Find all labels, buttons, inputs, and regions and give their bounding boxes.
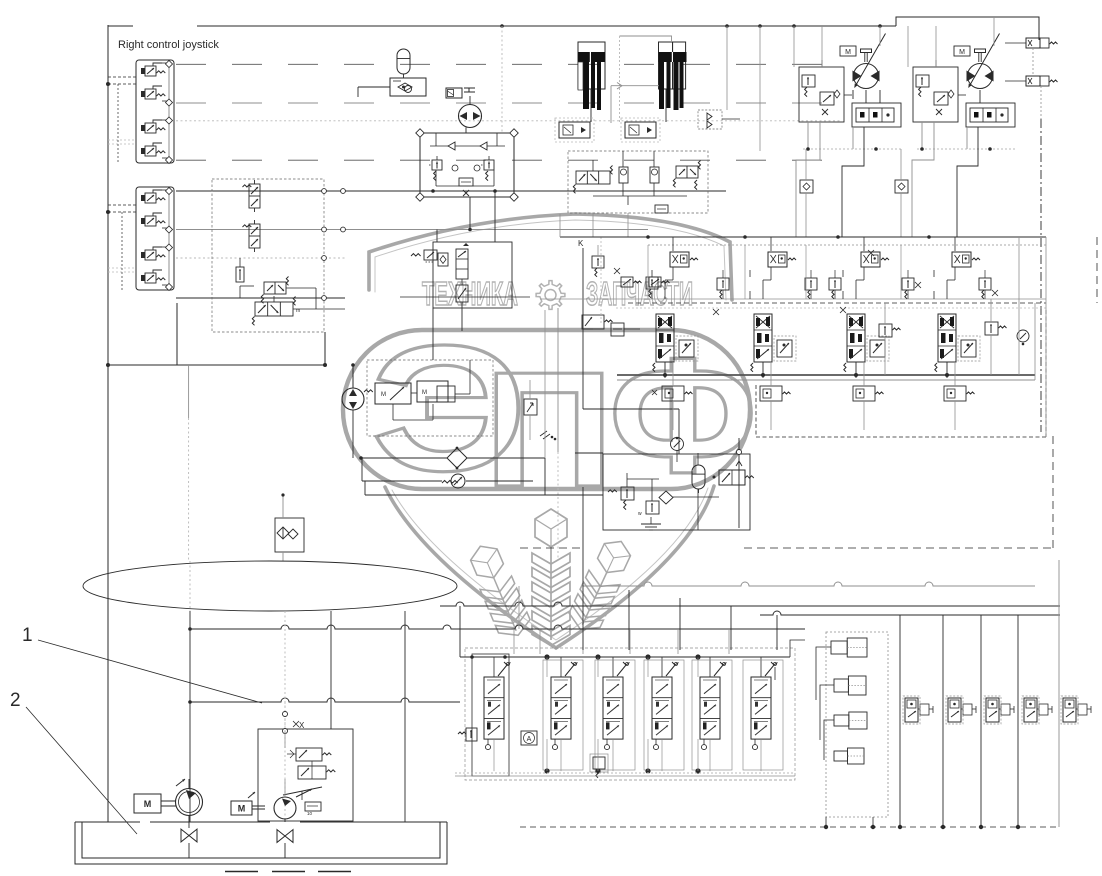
auxiliary block B5 (603, 454, 750, 530)
filter F1 housing (578, 42, 605, 89)
cross mark near col1 bottom valve (652, 390, 657, 395)
filter connector wires (620, 36, 672, 42)
reservoir ellipse (83, 561, 457, 611)
relief RV6 (621, 487, 634, 500)
top bus junction dots (500, 24, 504, 28)
relief valve (802, 75, 815, 87)
cluster internal wires (436, 230, 438, 243)
filter F3 with check (275, 518, 304, 552)
ground drain symbol (641, 523, 661, 525)
bank vertical returns (805, 245, 807, 299)
svg-text:Ф: Ф (609, 324, 757, 507)
collector wire y=495 (365, 494, 603, 496)
suction bus y629 (190, 625, 805, 629)
charge circuit frame G2 (913, 67, 958, 122)
svg-text:A: A (527, 736, 532, 743)
svg-text:w: w (638, 511, 642, 517)
solenoid unit SU3 (986, 698, 999, 722)
svg-text:M: M (144, 799, 152, 809)
supply risers from top bus (793, 26, 795, 67)
bank column at 763 bottom valve (760, 386, 782, 401)
cylinder CYL1 (831, 641, 847, 654)
bank column at 763 top valve (768, 252, 787, 267)
pilot dotted bus (917, 148, 1015, 150)
feeder horizontals (760, 611, 1060, 615)
M valve V33 (417, 381, 448, 402)
pilot spool V30 (456, 249, 468, 279)
bank column at 763 pilot valve (777, 340, 792, 357)
leader line 2 (26, 707, 137, 834)
pilot relief RV8 (592, 256, 604, 268)
shaft symbol (975, 49, 986, 53)
leader line 1 (38, 640, 262, 703)
bottom check box (655, 205, 668, 213)
accumulator A2 (692, 465, 705, 489)
svg-text:M: M (381, 392, 386, 398)
bank column at 947 risers (946, 362, 948, 378)
svg-text:2: 2 (10, 690, 21, 711)
check valves in B2 (448, 142, 455, 150)
drive motor (854, 64, 879, 89)
bank column at 947 top valve (952, 252, 971, 267)
small relief LS7 (593, 757, 605, 769)
stub wires at left rail (108, 76, 136, 78)
riser x=433 to B4 (432, 308, 434, 360)
svg-text:M: M (422, 390, 427, 396)
long verticals through tank zone (189, 611, 191, 822)
svg-text:M: M (845, 49, 851, 56)
bank column at 856 top valve (861, 252, 880, 267)
pump P1 (459, 105, 482, 128)
pressure valve (934, 92, 948, 105)
wires inside B1 (239, 258, 241, 267)
col0 wires (582, 248, 584, 409)
electric motor M1 (134, 794, 161, 813)
drive motor (968, 64, 993, 89)
pilot dotted bus (803, 148, 901, 150)
descending work lines G1 (796, 122, 820, 237)
svg-text:M: M (238, 804, 246, 814)
bottom dashed collector (520, 826, 1059, 828)
solenoid pilot SV1 (446, 88, 462, 98)
top border wire (108, 25, 133, 27)
bank column at 665 relief (646, 277, 658, 289)
B5 right riser (738, 438, 740, 528)
bank bottom dotted bus (455, 772, 795, 774)
riser wire x=177 (176, 303, 178, 365)
pilot M box (840, 46, 856, 56)
dotted supply from top bus (501, 26, 503, 133)
relief valve (916, 75, 929, 87)
B1 port nodes (322, 189, 327, 194)
lever valve LS2 (551, 677, 571, 739)
bypass box in B2 (459, 178, 473, 186)
valve PV1 (296, 748, 322, 761)
main valve V15 (255, 302, 293, 316)
bank column at 763 risers (762, 362, 764, 378)
bank column at 856 risers (855, 362, 857, 378)
orifice dots (540, 431, 550, 439)
left pump P2 (342, 388, 364, 410)
solenoid valve V12 (249, 224, 260, 248)
svg-text:M: M (959, 49, 965, 56)
lower spool V31 (456, 285, 468, 302)
riser to pump P2 (352, 365, 354, 388)
feeder elbows (790, 640, 805, 657)
pump pilot enclosure B4 (367, 360, 493, 436)
tank hatch dashes (225, 871, 258, 873)
cylinder CYL2 (834, 679, 848, 692)
bank column at 665 pilot valve (679, 340, 694, 357)
bank cross marks (868, 250, 874, 256)
solenoid unit SU5 (1063, 698, 1076, 722)
pressure valve (820, 92, 834, 105)
wires around B2 (465, 128, 467, 134)
top mid cluster box (433, 242, 512, 308)
charge circuit frame G1 (799, 67, 844, 122)
feeder staircase wires (628, 590, 630, 650)
vertical feeders to bottom bank (459, 606, 461, 654)
solenoid valve V11 (249, 184, 260, 208)
bank column at 947 bottom valve (944, 386, 966, 401)
valve V36 (582, 315, 604, 329)
gauge G3 (1017, 330, 1029, 342)
svg-text:1: 1 (22, 625, 33, 646)
pilot bus wires from J1 (176, 63, 840, 65)
bank column at 665 main spool (656, 314, 674, 362)
main valve V20 (576, 171, 610, 184)
bank column at 947 pilot valve (961, 340, 976, 357)
filter F2 element (659, 52, 687, 62)
svg-text:X: X (299, 721, 305, 730)
cylinder CYL3 (834, 715, 849, 726)
riser x=558 long dotted (557, 308, 559, 452)
A box (521, 731, 537, 745)
joystick block J2 (136, 187, 174, 290)
left drop to bank (559, 214, 561, 237)
check square C2 (895, 180, 908, 193)
svg-text:K: K (578, 239, 584, 248)
pilot M box (954, 46, 970, 56)
pilot bus wires from J2 (176, 190, 726, 192)
orifice (948, 90, 954, 98)
check diamond D1 (447, 448, 467, 468)
bank column at 763 main spool (754, 314, 772, 362)
shaft symbol T1 (464, 91, 475, 93)
solenoid unit SU1 (905, 698, 918, 722)
top-right raised bus wire (896, 17, 1039, 40)
wires (979, 90, 981, 103)
bank top bus wires (560, 236, 1046, 238)
lever valve LS4 (652, 677, 672, 739)
gauge G2 (671, 438, 684, 451)
dashed enclosure B1 (212, 179, 324, 332)
return bus y702 (190, 698, 460, 702)
shutoff valve SH1 (181, 829, 197, 842)
B5 wires (697, 453, 699, 465)
lower manifold box B3 (568, 151, 708, 213)
lower distribution buses (583, 582, 1035, 586)
bank column at 856 bottom valve (853, 386, 875, 401)
collector wire y=365 (108, 364, 325, 366)
bank top feed wires (459, 654, 461, 657)
filter F1 element (578, 52, 605, 62)
descending work lines G2 (912, 122, 934, 237)
right dashed border (1096, 237, 1098, 303)
wires (865, 90, 867, 103)
orifice box OB1 (611, 323, 624, 336)
cylinder group enclosure (826, 632, 888, 817)
accumulator A1 (397, 49, 410, 74)
bank column at 856 main spool (847, 314, 865, 362)
bank dashed enclosure (756, 436, 1046, 438)
valve station SV3 (625, 122, 656, 138)
pump block B2 (420, 133, 514, 197)
wire VB1 to left (358, 86, 390, 88)
joystick block J1 (136, 60, 174, 163)
watermark gear (536, 281, 565, 310)
collector wire y=458 (361, 457, 447, 459)
svg-text:10: 10 (307, 811, 313, 816)
relief RV7 (646, 501, 659, 514)
flow valve V34 (524, 399, 537, 415)
solenoid unit SU4 (1024, 698, 1037, 722)
flush valve FV2 (1026, 76, 1040, 86)
extra relief valves (717, 278, 729, 290)
svg-text:П: П (484, 338, 614, 522)
bank mid bus band (540, 298, 1046, 300)
bank column at 856 pilot valve (870, 340, 885, 357)
stack enclosure boxes (472, 654, 509, 776)
pump control box PB1 (258, 729, 353, 821)
valve PV2 (298, 766, 326, 779)
flush valve FV1 (1026, 38, 1040, 48)
pilot valve PV5 (621, 277, 633, 287)
tank T1 walls (75, 822, 447, 864)
lever valve LS1 (484, 677, 504, 739)
drain marks in B2 (463, 190, 469, 196)
pilot source symbol (442, 480, 458, 483)
bank bus junction dots (544, 654, 549, 659)
pilot valve V14 (264, 282, 286, 294)
bank column at 947 main spool (938, 314, 956, 362)
relief valve V13 (236, 267, 244, 282)
bank risers up (513, 629, 515, 654)
cartridge valves (619, 167, 628, 183)
cylinder feed wires (816, 647, 831, 700)
watermark brand text (422, 275, 693, 312)
lever valve LS5 (700, 677, 720, 739)
orifice check (438, 253, 448, 266)
wires in B3 (592, 160, 594, 171)
electric motor M2 (231, 801, 252, 815)
pilot valve V21 (676, 166, 698, 178)
watermark letters EPF (371, 308, 757, 522)
lever valve LS3 (603, 677, 623, 739)
orifice box PV3 (305, 802, 321, 811)
charge pump PU2 (274, 797, 296, 819)
relief LS0 (466, 728, 477, 741)
solenoid unit SU2 (948, 698, 961, 722)
svg-text:Right control joystick: Right control joystick (118, 39, 219, 51)
right column relief (985, 322, 998, 335)
row verticals (899, 615, 901, 827)
watermark wheat ears (532, 509, 570, 646)
bank lower gray bus (617, 374, 1035, 376)
right vertical drop x=1046 (1045, 237, 1047, 437)
swash linkage (283, 787, 322, 795)
watermark shield outline (343, 214, 750, 648)
filter F2 housing (659, 42, 673, 89)
bank column at 665 top valve (670, 252, 689, 267)
shutoff valve SH2 (277, 830, 293, 843)
pilot valve PV6 (649, 277, 661, 287)
valve block VB1 (390, 78, 426, 96)
valve station SV2 (559, 122, 590, 138)
check square C1 (800, 180, 813, 193)
relief valves in B2 (432, 160, 442, 170)
right return risers (1032, 48, 1034, 76)
shaft symbol (861, 49, 872, 53)
main pump PU1 (176, 789, 203, 816)
relief valve RV5 (424, 250, 437, 260)
orifice (834, 90, 840, 98)
PB1 wires (284, 731, 286, 748)
midline y453 continuation (575, 452, 603, 454)
dashed pilot risers (117, 84, 119, 163)
valve V40 (719, 470, 745, 485)
servo valve box (966, 103, 1015, 127)
mid relief RV9 (879, 324, 892, 337)
collector wire y=481 (362, 480, 442, 482)
dash-dot boundary right (1040, 119, 1042, 432)
X node top (283, 712, 288, 717)
bank column at 665 risers (664, 362, 666, 378)
M valve V32 (375, 383, 411, 404)
check diamond D2 (659, 491, 673, 504)
cross mark (614, 268, 620, 274)
bank column at 665 bottom valve (662, 386, 684, 401)
left border wire (107, 25, 109, 822)
B4 wires (411, 392, 417, 394)
vertical dotted drain x=188 (188, 418, 190, 561)
svg-text:ТЕХНИКА: ТЕХНИКА (422, 275, 518, 312)
servo valve box (852, 103, 901, 127)
lever valve LS6 (751, 677, 771, 739)
motor work lines (852, 90, 854, 99)
check valve pair CV1 (698, 110, 722, 129)
cylinder CYL4 (834, 751, 848, 761)
